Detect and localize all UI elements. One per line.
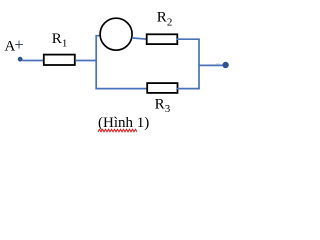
svg-text:3: 3 xyxy=(165,103,171,115)
svg-text:+: + xyxy=(14,35,23,54)
wire from node A to R1 xyxy=(22,60,44,62)
ammeter circle xyxy=(100,18,132,50)
output terminal dot xyxy=(222,62,228,68)
resistor R2 xyxy=(147,34,178,44)
svg-text:R: R xyxy=(157,10,167,26)
wire right vertical junction xyxy=(198,39,200,88)
wire from circle to R2 xyxy=(132,38,147,39)
wire left vertical junction xyxy=(96,36,100,89)
wire from R3 to right junction xyxy=(177,88,200,90)
resistor R3 xyxy=(147,83,177,93)
resistor R1 xyxy=(44,55,75,65)
svg-text:2: 2 xyxy=(167,16,173,28)
node A terminal dot xyxy=(18,57,23,62)
faint mark on output wire xyxy=(216,63,220,65)
wire from R1 to left junction xyxy=(75,60,97,62)
svg-text:R: R xyxy=(155,96,165,112)
wire bottom from left junction to R3 xyxy=(95,88,147,90)
svg-text:1: 1 xyxy=(62,37,68,49)
svg-text:R: R xyxy=(52,31,62,47)
wire output to node B xyxy=(199,64,223,66)
wire from R2 to right junction xyxy=(177,38,200,40)
spellcheck squiggle under caption xyxy=(98,129,137,132)
